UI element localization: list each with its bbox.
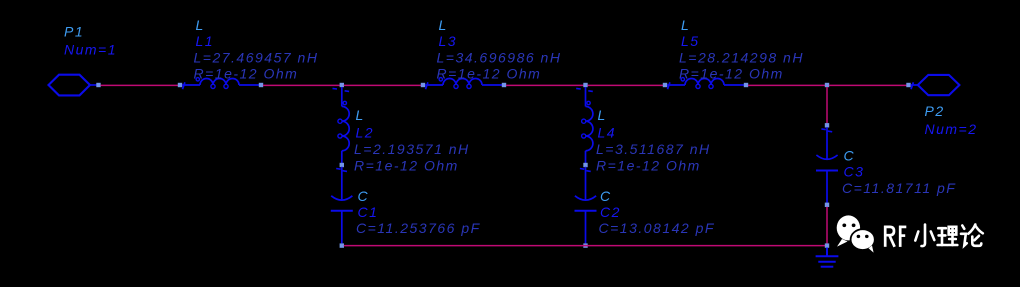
node L5 pin2 bbox=[744, 83, 748, 87]
svg-text:L1: L1 bbox=[196, 33, 215, 49]
svg-text:L2: L2 bbox=[356, 125, 375, 141]
node L1 pin1 bbox=[178, 83, 182, 87]
svg-text:R=1e-12 Ohm: R=1e-12 Ohm bbox=[437, 66, 542, 82]
inductor L5 bbox=[667, 78, 744, 90]
node C1 bottom bbox=[340, 243, 344, 247]
node L3 pin2 bbox=[502, 83, 506, 87]
capacitor C1 bbox=[331, 167, 353, 244]
watermark text 小理论 (drawn strokes) bbox=[915, 225, 983, 247]
svg-text:C: C bbox=[844, 148, 856, 164]
node C3 pin1 bbox=[825, 123, 829, 127]
node rail-ground junction bbox=[825, 243, 829, 247]
svg-text:L=27.469457 nH: L=27.469457 nH bbox=[194, 49, 319, 65]
node junction J3 bbox=[825, 83, 829, 87]
svg-text:Num=1: Num=1 bbox=[64, 42, 117, 58]
watermark WeChat icon bbox=[837, 215, 875, 252]
inductor L3 bbox=[425, 78, 502, 90]
node L1 pin2 bbox=[259, 83, 263, 87]
wire W1 bbox=[101, 84, 179, 86]
svg-text:L: L bbox=[196, 17, 205, 33]
port P2 bbox=[911, 75, 960, 95]
svg-text:C2: C2 bbox=[600, 204, 621, 220]
svg-text:C: C bbox=[358, 188, 370, 204]
svg-text:R=1e-12 Ohm: R=1e-12 Ohm bbox=[194, 66, 299, 82]
svg-text:C=13.08142 pF: C=13.08142 pF bbox=[599, 220, 715, 236]
svg-text:L=34.696986 nH: L=34.696986 nH bbox=[437, 49, 562, 65]
svg-text:L4: L4 bbox=[598, 125, 617, 141]
node P2 pin bbox=[906, 83, 910, 87]
svg-text:L: L bbox=[356, 107, 365, 123]
svg-text:C1: C1 bbox=[358, 204, 379, 220]
ground bbox=[816, 248, 839, 267]
capacitor C2 bbox=[575, 167, 597, 244]
svg-text:Num=2: Num=2 bbox=[925, 121, 978, 137]
svg-text:P2: P2 bbox=[925, 103, 945, 119]
svg-text:L=2.193571 nH: L=2.193571 nH bbox=[354, 141, 470, 157]
port P1 bbox=[49, 75, 98, 96]
node L5 pin1 bbox=[663, 83, 667, 87]
svg-text:L5: L5 bbox=[681, 33, 700, 49]
wire W3 bbox=[344, 84, 421, 86]
wire W6 bbox=[748, 84, 825, 86]
capacitor C3 bbox=[816, 127, 838, 203]
node junction J2 bbox=[583, 83, 587, 87]
wire J3 to C3 bbox=[826, 87, 828, 124]
svg-text:C=11.81711 pF: C=11.81711 pF bbox=[842, 180, 956, 196]
node L4-C2 junction bbox=[583, 163, 587, 167]
svg-text:R=1e-12 Ohm: R=1e-12 Ohm bbox=[354, 157, 459, 173]
inductor L1 bbox=[182, 78, 259, 90]
watermark text RF (drawn strokes) bbox=[884, 226, 906, 247]
svg-text:L: L bbox=[681, 17, 690, 33]
wire W5 bbox=[588, 84, 664, 86]
svg-text:L: L bbox=[598, 107, 607, 123]
svg-text:L: L bbox=[439, 17, 448, 33]
wire ground rail bbox=[344, 245, 825, 247]
wire W2 bbox=[263, 84, 340, 86]
svg-text:P1: P1 bbox=[64, 24, 84, 40]
wire C3 to rail bbox=[826, 207, 828, 244]
node P1 pin bbox=[96, 83, 100, 87]
node junction J1 bbox=[340, 83, 344, 87]
svg-text:R=1e-12 Ohm: R=1e-12 Ohm bbox=[596, 157, 701, 173]
svg-text:L=28.214298 nH: L=28.214298 nH bbox=[679, 49, 804, 65]
node L3 pin1 bbox=[421, 83, 425, 87]
svg-text:R=1e-12 Ohm: R=1e-12 Ohm bbox=[679, 66, 784, 82]
node C2 bottom bbox=[583, 243, 587, 247]
wire W7 bbox=[829, 84, 907, 86]
svg-text:C: C bbox=[600, 188, 612, 204]
svg-text:L=3.511687 nH: L=3.511687 nH bbox=[596, 141, 711, 157]
inductor L4 bbox=[576, 87, 593, 163]
node L2-C1 junction bbox=[340, 163, 344, 167]
wire W4 bbox=[506, 84, 584, 86]
inductor L2 bbox=[333, 87, 350, 163]
node C3 pin2 bbox=[825, 203, 829, 207]
svg-text:L3: L3 bbox=[439, 33, 458, 49]
svg-text:C3: C3 bbox=[844, 164, 865, 180]
svg-text:C=11.253766 pF: C=11.253766 pF bbox=[356, 220, 481, 236]
